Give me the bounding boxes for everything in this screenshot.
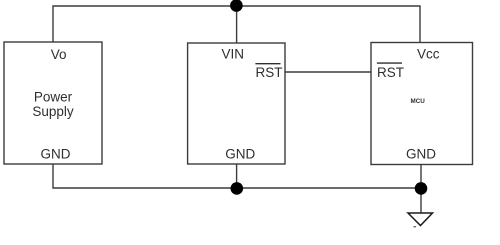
junction dot: ground rail / supervisor GND xyxy=(231,182,244,195)
svg-text:GND: GND xyxy=(41,146,71,161)
svg-text:GND: GND xyxy=(406,146,436,161)
junction dot: ground rail / MCU GND xyxy=(415,182,428,195)
svg-text:Vcc: Vcc xyxy=(417,46,440,61)
svg-text:Power: Power xyxy=(34,90,73,105)
svg-text:VIN: VIN xyxy=(221,46,244,61)
pin label RST (MCU, active-low overline) xyxy=(377,63,404,80)
svg-text:MCU: MCU xyxy=(411,98,426,105)
svg-text:Vo: Vo xyxy=(51,47,67,62)
pin label GND (power supply) xyxy=(41,146,71,161)
pin label Vcc xyxy=(417,46,440,61)
ground symbol xyxy=(408,213,433,226)
power supply block xyxy=(4,42,102,164)
wire: RST net between supervisor and MCU xyxy=(285,71,371,73)
value label MCU xyxy=(411,98,426,105)
pin label VIN xyxy=(221,46,244,61)
pin label RST (supervisor, active-low overline) xyxy=(255,64,282,80)
value label Power Supply xyxy=(32,90,74,119)
pin label GND (supervisor) xyxy=(225,146,255,161)
wire: top supply rail Vo to Vcc xyxy=(53,6,420,43)
reset supervisor block xyxy=(188,43,285,164)
wire: supervisor GND drop xyxy=(236,164,238,188)
svg-text:RST: RST xyxy=(377,65,404,80)
pin label GND (MCU) xyxy=(406,146,436,161)
MCU block U1 xyxy=(371,43,473,165)
wire: supply rail tap down to VIN xyxy=(236,6,238,43)
wire: bottom ground rail xyxy=(53,164,421,188)
stray mark artifact near ground symbol xyxy=(414,226,417,227)
svg-text:Supply: Supply xyxy=(32,104,74,119)
svg-text:RST: RST xyxy=(256,65,283,80)
pin label Vo xyxy=(51,47,67,62)
svg-text:GND: GND xyxy=(225,146,255,161)
junction dot: supply rail / VIN tap xyxy=(230,0,243,12)
wire: MCU GND drop to ground symbol xyxy=(420,165,422,214)
